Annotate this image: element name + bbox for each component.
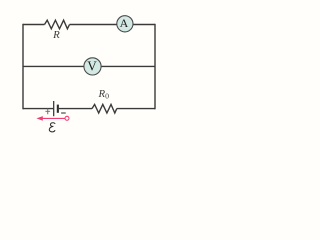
voltmeter V bbox=[84, 58, 101, 75]
emf label script E bbox=[49, 123, 55, 132]
emf arrow bbox=[36, 116, 69, 121]
emf node circle bbox=[65, 116, 69, 120]
svg-text:A: A bbox=[120, 16, 129, 30]
wire bottom-middle segment bbox=[59, 108, 92, 110]
battery + label bbox=[45, 109, 50, 115]
wire top-middle segment bbox=[70, 24, 117, 26]
battery plate short bbox=[57, 105, 59, 113]
resistor R0 bbox=[92, 104, 117, 113]
wire top-right segment bbox=[133, 24, 155, 26]
wire bottom-right segment bbox=[117, 108, 155, 110]
wire middle-left segment bbox=[23, 65, 84, 67]
battery plate long bbox=[53, 101, 54, 116]
wire top-left segment bbox=[23, 24, 45, 26]
wire right edge bbox=[154, 24, 156, 110]
wire bottom-left segment bbox=[23, 108, 53, 110]
ammeter A bbox=[117, 16, 133, 32]
wire left edge bbox=[22, 24, 24, 110]
battery - label bbox=[61, 112, 66, 114]
resistor R bbox=[45, 20, 70, 29]
wire middle-right segment bbox=[101, 65, 155, 67]
svg-text:R: R bbox=[52, 29, 60, 41]
svg-text:V: V bbox=[87, 59, 97, 74]
